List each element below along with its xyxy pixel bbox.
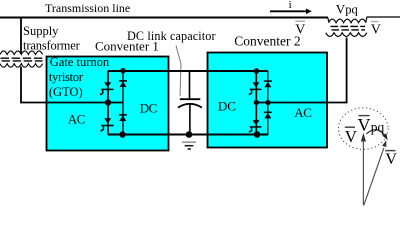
svg-text:AC: AC [294, 105, 311, 120]
wire: drop from transmission line to supply transformer [20, 18, 22, 54]
svg-text:transformer: transformer [23, 39, 81, 53]
converter 1 box [47, 57, 169, 151]
ground symbol [182, 142, 196, 149]
wire: converter 2 AC output to series transformer [256, 38, 346, 103]
svg-text:DC: DC [140, 100, 157, 115]
svg-text:V: V [358, 115, 371, 135]
wire: converter 2 bridge left leg [255, 71, 257, 135]
svg-text:tyristor: tyristor [49, 70, 84, 84]
phasor diagram: dotted locus circle [339, 108, 389, 150]
transformer T1 secondary coil [0, 64, 43, 68]
svg-text:Gate turnon: Gate turnon [50, 55, 110, 69]
svg-text:V: V [295, 23, 305, 38]
svg-text:V: V [345, 127, 358, 146]
capacitor C1 (DC link) top lead [189, 71, 191, 99]
svg-text:V: V [371, 22, 381, 37]
phasor V rotated (diagonal vector) [364, 140, 387, 205]
svg-text:i: i [289, 0, 292, 11]
GTO Q2 (converter 1 lower) [101, 118, 114, 131]
capacitor C1 straight plate [180, 98, 201, 100]
label: V bar (phasor original) [345, 127, 358, 146]
transformer T2 core (upper bar) [331, 25, 366, 27]
transformer T1 core (lower bar) [2, 60, 43, 62]
label: V bar pq (phasor) [358, 115, 385, 135]
wire: DC bus bottom [108, 134, 268, 136]
node: converter 2 mid-left junction [254, 100, 259, 105]
svg-text:Conventer 2: Conventer 2 [234, 33, 300, 48]
svg-text:V: V [385, 151, 397, 168]
svg-text:AC: AC [68, 111, 85, 126]
svg-text:Transmission line: Transmission line [45, 1, 130, 15]
svg-text:DC link capacitor: DC link capacitor [127, 29, 216, 43]
wire: converter 1 bridge right leg [122, 71, 124, 135]
wire: converter 2 bridge right leg [267, 71, 269, 135]
diode D1 (converter 1 upper, antiparallel) [119, 81, 127, 87]
GTO Q4 (converter 2 lower) [249, 120, 262, 132]
GTO Q3 (converter 2 upper) [249, 82, 262, 94]
node: converter 1 AC mid junction [105, 99, 111, 105]
node: converter 2 top junction [253, 68, 259, 74]
diode D3 (converter 2 upper, antiparallel) [264, 81, 272, 87]
transformer T2 primary right connector [366, 18, 367, 23]
node: converter 1 top junction [120, 68, 125, 73]
svg-text:pq: pq [371, 119, 385, 134]
transformer T1 core (upper bar) [1, 57, 43, 59]
diode D4 (converter 2 lower, antiparallel) [264, 112, 272, 118]
converter 2 box [208, 53, 328, 148]
transformer T2 primary left connector [328, 18, 329, 23]
capacitor C1 bottom lead [189, 105, 191, 135]
wire: transmission line right of series transformer [367, 16, 400, 18]
node: converter 2 bottom junction [254, 131, 261, 138]
svg-text:(GTO): (GTO) [49, 85, 83, 99]
node: converter 1 bottom junction [119, 131, 125, 137]
leader line from DC link capacitor label to capacitor [176, 46, 181, 97]
svg-text:DC: DC [218, 98, 236, 113]
capacitor C1 curved plate [178, 104, 202, 108]
transformer T1 (supply transformer) primary coil [0, 51, 43, 55]
wire: AC input from supply transformer to converter 1 bridge [21, 67, 123, 103]
label: V bar (left of series transformer) [295, 21, 305, 38]
wire: DC bus top (converter 1 to converter 2) [108, 70, 268, 72]
phasor Vpq rotation arc arrow [367, 130, 388, 140]
phasor V (vertical vector) [361, 133, 366, 206]
GTO Q1 (converter 1 upper) [100, 82, 114, 94]
transformer T2 (series) primary coil [329, 19, 366, 23]
diode D2 (converter 1 lower, antiparallel) [119, 115, 127, 121]
node: ground junction on DC bus [186, 131, 193, 138]
transformer T2 secondary coil [326, 33, 367, 37]
label: V bar (right of series transformer) [371, 22, 381, 38]
current arrow i [270, 9, 312, 15]
svg-text:Vpq: Vpq [336, 2, 359, 17]
transmission line (thick bus, left to series transformer) [0, 17, 328, 19]
transformer T2 core (lower bar) [332, 29, 366, 31]
wire: converter 1 bridge left leg [107, 71, 109, 135]
svg-text:Supply: Supply [23, 24, 59, 38]
node: converter 2 mid-right junction [265, 100, 270, 105]
label: V bar (phasor resultant) [385, 151, 397, 168]
